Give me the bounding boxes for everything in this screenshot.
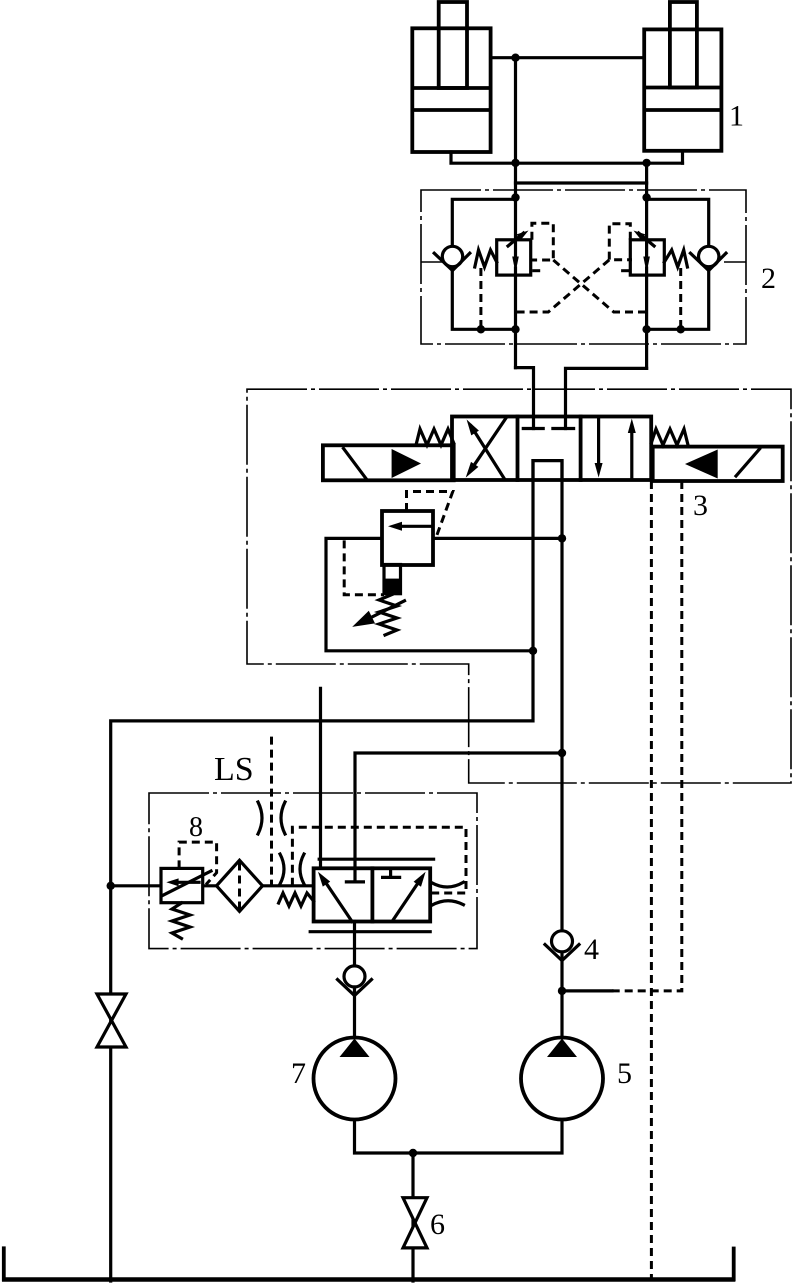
wire: counterbalance left check branch bbox=[452, 199, 515, 329]
LS dashed pilot box bbox=[292, 827, 466, 893]
svg-text:5: 5 bbox=[617, 1057, 632, 1090]
check valve 4: circle bbox=[552, 931, 573, 952]
valve U3 left square crossed arrows bbox=[471, 426, 504, 478]
counterbalance relief right: adjust arrow bbox=[639, 233, 655, 246]
LS dashed sense line upper with orifice bbox=[270, 737, 273, 886]
wire: tank return line to left drop bbox=[111, 651, 533, 1281]
compensator proportional bars bbox=[319, 858, 433, 861]
valve U3 pilot dash line to tank bbox=[650, 481, 653, 1281]
valve U3 right square parallel arrows bbox=[597, 419, 600, 467]
orifice on LS line 2 bbox=[280, 854, 284, 884]
counterbalance relief left: adjust arrow bbox=[508, 233, 524, 246]
wire: jog from bus A into valve port A bbox=[516, 368, 534, 429]
wire: valve P-leg down to pump 5 bbox=[560, 461, 563, 1040]
cylinder 1 right: body bbox=[644, 29, 721, 150]
counterbalance spring right bbox=[664, 250, 687, 267]
check valve above pump 7: circle bbox=[344, 966, 365, 987]
wire: rod-side ports of cylinders 1 bbox=[491, 56, 645, 59]
wire: bus tie line above block 2 bbox=[516, 181, 647, 184]
spring right of valve U3 bbox=[651, 429, 688, 445]
svg-text:LS: LS bbox=[214, 751, 254, 788]
wire: valve T-leg down to relief outlet junction bbox=[531, 461, 534, 651]
wire: LS block main line left segment bbox=[111, 884, 161, 887]
check valve CB-right: circle bbox=[699, 246, 719, 266]
cylinder 1 left: piston bbox=[414, 86, 488, 90]
shut-off valve left (bowtie) bbox=[97, 994, 126, 1021]
svg-text:6: 6 bbox=[430, 1208, 445, 1241]
relief pilot dash hook bbox=[407, 492, 453, 539]
cylinder 1 left: piston rod bbox=[439, 2, 467, 88]
relief arrow bbox=[400, 525, 432, 528]
svg-text:7: 7 bbox=[291, 1057, 306, 1090]
wire: relief valve 3 inlet line bbox=[433, 537, 562, 540]
wire: compensator bottom port to pump 7 bbox=[353, 922, 356, 1041]
svg-text:1: 1 bbox=[729, 100, 744, 133]
pilot dash CB-right diagonal to bus A bbox=[516, 260, 610, 312]
compensator right square diag arrow bbox=[393, 882, 419, 921]
wire: compensator top port line to P junction bbox=[355, 753, 562, 882]
valve 8 spring bbox=[172, 903, 190, 939]
check valve CB-left: circle bbox=[442, 246, 462, 266]
wire: relief valve 3 outlet enclosure bbox=[326, 538, 533, 650]
wire: left vertical bus A (x=515.5) from cylinders through counterbalance to jog bbox=[514, 58, 517, 368]
compensator left square diag arrow bbox=[325, 882, 352, 922]
relief vent dash bbox=[344, 540, 384, 594]
enclosure LS block (chain) bbox=[149, 793, 477, 949]
valve 8 adjust diagonal bbox=[163, 871, 211, 895]
enclosure block 3 (chain) bbox=[247, 389, 791, 783]
drain pilot dash CB-right bbox=[679, 268, 682, 329]
cylinder 1 right: piston bbox=[646, 86, 719, 90]
valve U3 middle square blocked ports A/B bbox=[523, 427, 543, 430]
pump 7: circle bbox=[314, 1038, 396, 1120]
wire: LS sense line upper (x=320.5) bbox=[319, 688, 322, 868]
chain centerline stubs block 2 bbox=[421, 261, 443, 263]
solenoid right (proportional) bbox=[653, 447, 783, 481]
relief adjust arrow bbox=[367, 601, 405, 620]
wire: right vertical bus B (x=646.6) bbox=[645, 163, 648, 368]
spring left of valve U3 bbox=[416, 429, 454, 445]
valve U3 pilot dash line to check valve 4 bbox=[612, 481, 682, 991]
svg-text:2: 2 bbox=[761, 262, 776, 295]
pump 5: circle bbox=[521, 1038, 603, 1120]
compensator right square blocked port stub bbox=[389, 868, 392, 877]
relief valve 8: square bbox=[161, 868, 203, 902]
compensator valve: body bbox=[314, 868, 431, 921]
counterbalance relief right: square bbox=[630, 240, 664, 275]
pilot dash CB-right hook bbox=[609, 224, 632, 260]
svg-text:4: 4 bbox=[584, 933, 599, 966]
counterbalance relief left: square bbox=[497, 240, 531, 275]
tank bbox=[2, 1277, 735, 1282]
cylinder 1 right: piston rod bbox=[670, 2, 697, 88]
valve 8 arrow bbox=[178, 881, 199, 884]
pilot dash CB-left diagonal to bus B bbox=[553, 260, 646, 312]
directional valve U3: body 3 squares bbox=[452, 417, 651, 481]
wire: right cylinder cap-side port stub bbox=[681, 152, 684, 163]
wire: jog from bus B into valve port B bbox=[566, 368, 647, 428]
wire: LS block main line mid segment bbox=[203, 884, 314, 887]
svg-text:8: 8 bbox=[189, 812, 203, 843]
compensator LS orifice right bbox=[432, 882, 464, 887]
wire: pump suction manifold bbox=[355, 1120, 563, 1154]
pilot dash CB-left hook bbox=[531, 223, 554, 260]
svg-text:3: 3 bbox=[693, 489, 708, 522]
pilot-operated relief valve (block 3): square bbox=[382, 511, 433, 565]
compensator left square blocked port bbox=[346, 880, 363, 883]
wire: counterbalance right check branch bbox=[647, 199, 709, 329]
relief spring bbox=[379, 595, 397, 636]
wire: left cylinder cap-side port stub bbox=[451, 152, 683, 163]
valve U3 middle square P-T bridge bbox=[533, 461, 562, 480]
wire: check valve 4 outlet branch (solid part) bbox=[562, 989, 612, 992]
solenoid left (proportional) bbox=[323, 445, 454, 480]
valve 6 (bowtie) bbox=[403, 1198, 427, 1223]
enclosure block 2 (chain) bbox=[421, 190, 746, 344]
filter: diamond bbox=[217, 860, 263, 911]
wire: valve 6 drop line bbox=[411, 1153, 414, 1281]
orifice on LS line 1 bbox=[258, 802, 262, 834]
counterbalance relief left: flow arrow bbox=[514, 241, 517, 260]
valve 8 pilot dash hook bbox=[179, 842, 217, 884]
relief proportional solenoid box bbox=[384, 565, 401, 594]
drain pilot dash CB-left bbox=[479, 268, 482, 329]
cylinder 1 left: body bbox=[412, 28, 490, 152]
counterbalance relief right: flow arrow bbox=[645, 241, 648, 260]
junction dots bbox=[511, 54, 519, 62]
compensator spring bbox=[279, 893, 314, 906]
counterbalance spring left bbox=[475, 250, 497, 267]
